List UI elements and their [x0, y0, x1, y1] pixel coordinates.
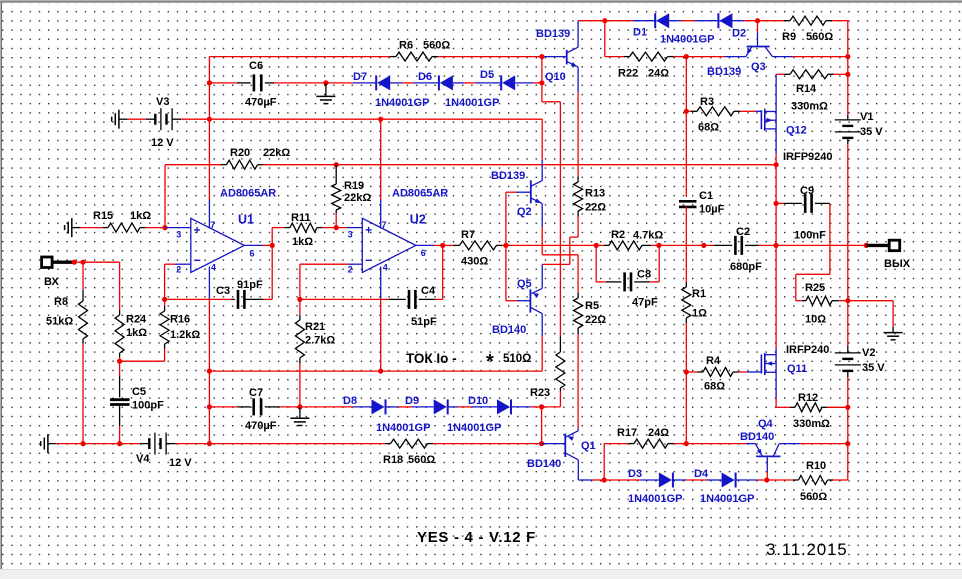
svg-text:D5: D5: [480, 69, 494, 81]
svg-text:680pF: 680pF: [730, 261, 762, 273]
label R5 value: [585, 314, 606, 326]
label R13 value: [585, 202, 606, 214]
wire C4 row: [300, 298, 406, 300]
label C5 value: [132, 400, 164, 412]
svg-text:560Ω: 560Ω: [806, 31, 833, 43]
pin label 7 of U2: [382, 220, 387, 230]
wire R24-R16 row: [120, 349, 165, 362]
label R21: [305, 321, 325, 333]
svg-text:D9: D9: [405, 395, 419, 407]
label Q10: [545, 71, 566, 83]
svg-text:1kΩ: 1kΩ: [292, 236, 313, 248]
wire mid rail to ground: [848, 301, 893, 327]
wire R15 to U1: [146, 227, 166, 229]
mosfet Q12: [761, 109, 776, 131]
node R17 right: [684, 441, 689, 446]
svg-text:D6: D6: [418, 71, 432, 83]
wire Q12 source to R14: [775, 74, 777, 111]
resistor R9: [784, 16, 832, 25]
node V3 rail: [207, 117, 212, 122]
resistor R13: [574, 177, 583, 217]
resistor R5: [574, 293, 583, 335]
label R6 value: [423, 40, 450, 52]
svg-text:R4: R4: [706, 355, 721, 367]
label 1N4001GP for D10: [447, 422, 501, 434]
pin label 3 of U2: [348, 230, 353, 240]
resistor R1: [682, 287, 691, 323]
svg-text:R13: R13: [585, 188, 605, 200]
wire V3 to rail: [172, 118, 209, 120]
label asterisk: [486, 351, 494, 373]
svg-text:R15: R15: [93, 210, 113, 222]
wire C3 leg down: [271, 245, 273, 299]
label C4 value: [411, 316, 437, 328]
label D2: [732, 28, 746, 40]
wire top D1 row: [578, 20, 633, 22]
label R4 value: [704, 381, 725, 393]
wire D3 row left: [604, 479, 659, 481]
capacitor C9: [805, 194, 811, 213]
label C8 value: [632, 297, 658, 309]
svg-text:C8: C8: [637, 269, 651, 281]
svg-text:R2: R2: [611, 229, 625, 241]
svg-text:R9: R9: [782, 31, 796, 43]
svg-text:C5: C5: [132, 386, 146, 398]
svg-text:1N4001GP: 1N4001GP: [700, 493, 754, 505]
transistor Q1: [565, 431, 578, 460]
wire Q10 emitter to R13: [577, 93, 579, 177]
node output rail mid: [774, 243, 779, 248]
label C6 value: [245, 97, 277, 109]
svg-text:3.11.2015: 3.11.2015: [766, 540, 848, 559]
svg-text:560Ω: 560Ω: [423, 40, 450, 52]
svg-text:C2: C2: [736, 226, 750, 238]
svg-text:D4: D4: [694, 468, 709, 480]
wire C3 right: [244, 298, 272, 300]
label R16 value: [170, 329, 200, 341]
label D4: [694, 468, 709, 480]
label R2: [611, 229, 625, 241]
label R7: [461, 229, 475, 241]
label R18: [383, 454, 403, 466]
resistor R8: [79, 262, 88, 443]
wire BX to R8: [74, 261, 83, 263]
label R10: [806, 460, 826, 472]
label C1 value: [699, 204, 725, 216]
battery V3: [155, 108, 172, 130]
label C7 value: [245, 420, 277, 432]
svg-text:Q5: Q5: [517, 278, 532, 290]
svg-text:47pF: 47pF: [632, 297, 658, 309]
wire node to R10: [767, 479, 799, 481]
label R7 value: [461, 256, 488, 268]
wire BX to R24 corner: [83, 262, 120, 310]
svg-text:R8: R8: [54, 296, 68, 308]
node Q1 collector: [602, 477, 607, 482]
label C3: [216, 285, 230, 297]
wire C2 right: [745, 244, 776, 246]
ground at diode chain: [316, 83, 335, 104]
capacitor C1: [679, 201, 697, 207]
svg-text:ВХ: ВХ: [44, 276, 60, 288]
svg-text:BD140: BD140: [527, 458, 561, 470]
svg-text:330mΩ: 330mΩ: [791, 101, 828, 113]
svg-text:BD139: BD139: [491, 170, 525, 182]
resistor R15: [108, 223, 146, 232]
label Q3: [751, 61, 766, 73]
svg-text:4.7kΩ: 4.7kΩ: [633, 230, 663, 242]
svg-text:Q4: Q4: [758, 418, 774, 430]
svg-text:1N4001GP: 1N4001GP: [375, 97, 429, 109]
wire U1 pin7 feed: [208, 119, 210, 228]
label C3 value: [237, 279, 263, 291]
transistor Q4: [755, 444, 780, 457]
wire D5 node riser: [541, 57, 543, 83]
svg-text:4: 4: [211, 263, 216, 273]
label D1: [633, 27, 647, 39]
label R11: [291, 212, 311, 224]
label Q5: [517, 278, 532, 290]
node Q1 base: [539, 441, 544, 446]
label R2 value: [633, 230, 663, 242]
wire Q1 collector down: [578, 460, 604, 480]
wire D3-D4: [686, 479, 707, 481]
wire U2 pin4 down: [380, 267, 382, 372]
svg-text:560Ω: 560Ω: [800, 491, 827, 503]
diode D3: [659, 473, 686, 488]
mosfet Q11: [761, 353, 776, 375]
label R3: [700, 96, 714, 108]
wire feedback row main: [263, 164, 776, 166]
node R24 bottom: [117, 359, 122, 364]
bottom scrollbar strip: [0, 569, 962, 579]
svg-text:C9: C9: [800, 185, 814, 197]
svg-text:YES - 4 - V.12 F: YES - 4 - V.12 F: [417, 529, 536, 546]
resistor R22: [605, 52, 674, 61]
node output port: [864, 243, 869, 248]
wire R11 left leg: [271, 228, 273, 246]
node BX: [72, 260, 77, 265]
wire R17node to Q4: [686, 443, 755, 445]
resistor R21: [295, 299, 304, 407]
svg-text:R11: R11: [291, 212, 311, 224]
label V1 value: [860, 126, 883, 138]
svg-text:Q1: Q1: [581, 440, 596, 452]
wire gnd to V4: [56, 443, 149, 445]
label 1N4001GP for D5: [445, 97, 499, 109]
diode D4: [707, 473, 757, 488]
svg-text:R12: R12: [798, 392, 818, 404]
label U1: [238, 213, 254, 227]
wire output rail: [775, 165, 777, 355]
wire weave W2: [542, 217, 578, 265]
transistor Q2: [531, 180, 542, 203]
capacitor C8: [625, 272, 631, 291]
svg-text:24Ω: 24Ω: [648, 427, 669, 439]
capacitor C6: [254, 74, 261, 91]
wire node to Q3 emitter: [686, 56, 746, 58]
label V4 value: [169, 457, 192, 469]
node R22-R3 junction: [684, 54, 689, 59]
wire feedback row left corner: [165, 165, 221, 228]
node C7 tap: [207, 404, 212, 409]
svg-text:24Ω: 24Ω: [648, 68, 669, 80]
wire V1 top: [847, 21, 849, 120]
resistor R12: [790, 403, 848, 412]
svg-text:BD139: BD139: [707, 66, 741, 78]
svg-text:68Ω: 68Ω: [704, 381, 725, 393]
svg-text:R19: R19: [344, 180, 364, 192]
wire C8 left jog: [596, 245, 621, 282]
node V4 rail left: [207, 441, 212, 446]
node D5-riser: [539, 80, 544, 85]
label 1N4001GP for D8 D9: [376, 422, 430, 434]
wire bias column W3: [559, 102, 561, 337]
wire gnd to R15: [80, 227, 108, 229]
label R1: [692, 288, 706, 300]
wire Q2 base leg: [506, 192, 531, 245]
svg-text:22kΩ: 22kΩ: [344, 192, 371, 204]
svg-text:V2: V2: [862, 347, 875, 359]
node U1 plus input: [162, 225, 167, 230]
node Q3 collector rail: [845, 54, 850, 59]
wire Q11 drain down: [776, 372, 790, 407]
svg-text:1.2kΩ: 1.2kΩ: [170, 329, 200, 341]
label V3: [156, 96, 169, 108]
svg-text:D8: D8: [343, 395, 357, 407]
label R8: [54, 296, 68, 308]
svg-text:22Ω: 22Ω: [585, 314, 606, 326]
label 1N4001GP for D3: [628, 493, 682, 505]
label R19 value: [344, 192, 371, 204]
svg-text:BD140: BD140: [740, 431, 774, 443]
svg-text:Q11: Q11: [787, 363, 807, 375]
capacitor C3: [238, 290, 244, 309]
resistor R14: [776, 70, 848, 79]
wire Q5 emitter leg: [541, 264, 543, 288]
wire Q5 base leg: [506, 245, 531, 300]
label R1 value: [692, 308, 707, 320]
label R12 value: [793, 418, 830, 430]
window top border: [0, 0, 962, 3]
op-amp U2: [362, 218, 416, 272]
pin label 4 of U1: [211, 263, 216, 273]
node U1 output: [270, 243, 275, 248]
pin label 2 of U2: [348, 265, 353, 275]
resistor R10: [799, 476, 834, 485]
wire R1 to R4 node: [685, 323, 687, 444]
svg-text:1N4001GP: 1N4001GP: [445, 97, 499, 109]
label R11 value: [292, 236, 313, 248]
label 1N4001GP for D1 D2: [660, 34, 714, 46]
wire R17 left leg: [603, 444, 605, 480]
svg-text:R5: R5: [585, 300, 599, 312]
wire C1 to R1: [685, 207, 687, 287]
wire top row to R6: [209, 56, 390, 58]
wire drive row: [506, 244, 596, 246]
wire Q10 base stub: [542, 56, 566, 58]
wire Q1 base stub: [542, 443, 566, 445]
wire R22node down to C1: [685, 57, 687, 197]
node Q4 collector rail: [845, 441, 850, 446]
svg-text:C3: C3: [216, 285, 230, 297]
label title YES-4-V.12F: [417, 529, 536, 546]
label C9: [800, 185, 814, 197]
label D3: [628, 468, 642, 480]
svg-text:6: 6: [421, 248, 426, 258]
svg-text:51pF: 51pF: [411, 316, 437, 328]
svg-text:1kΩ: 1kΩ: [130, 210, 151, 222]
capacitor C7: [254, 398, 261, 415]
label R20 value: [263, 147, 290, 159]
wire R23 bottom jog: [542, 391, 561, 407]
node R2 left: [594, 243, 599, 248]
wire D7-D6: [402, 82, 414, 84]
svg-text:12 V: 12 V: [151, 137, 174, 149]
wire +12V rail: [209, 118, 542, 120]
svg-text:22Ω: 22Ω: [585, 202, 606, 214]
label R10 value: [800, 491, 827, 503]
label R8 value: [46, 316, 73, 328]
svg-text:V4: V4: [136, 453, 150, 465]
label date: [766, 540, 848, 559]
resistor R4: [686, 368, 738, 377]
node U2 pin7 tap: [378, 117, 383, 122]
label BD140 Q1: [527, 458, 561, 470]
pin label 4 of U2: [383, 263, 388, 273]
label D6: [418, 71, 432, 83]
wire gnd to D8: [300, 406, 372, 408]
wire node to Q1 base: [541, 407, 543, 444]
node Vminus row tap: [207, 369, 212, 374]
battery V4: [149, 433, 166, 455]
port lead BYX: [866, 244, 889, 247]
label IRFP240: [786, 344, 829, 356]
node R12 right: [845, 405, 850, 410]
svg-text:1kΩ: 1kΩ: [126, 327, 147, 339]
wire V2 bottom: [847, 371, 849, 480]
node R8 bottom: [80, 441, 85, 446]
label R17: [617, 427, 637, 439]
label AD8065AR for U2: [392, 188, 448, 200]
label BD139 for Q10: [536, 28, 570, 40]
resistor R20: [221, 160, 263, 169]
pin label 3 of U1: [176, 230, 181, 240]
svg-text:R16: R16: [170, 314, 190, 326]
node R4 left: [684, 369, 689, 374]
label R13: [585, 188, 605, 200]
svg-text:1N4001GP: 1N4001GP: [628, 493, 682, 505]
svg-text:D2: D2: [732, 28, 746, 40]
svg-text:V3: V3: [156, 96, 169, 108]
label BYX: [884, 258, 911, 270]
resistor R17: [604, 439, 686, 448]
svg-text:D10: D10: [468, 395, 488, 407]
wire D10 to node: [531, 406, 542, 408]
diode D8: [372, 399, 399, 414]
resistor R3: [686, 107, 740, 116]
wire R9 to V1 rail: [832, 20, 848, 22]
wire U1 pin4 down: [208, 267, 210, 444]
svg-text:BD140: BD140: [492, 324, 526, 336]
wire D6-D5: [464, 82, 476, 84]
wire R25 to mid rail: [839, 300, 848, 302]
wire U1 pin3 stub: [165, 227, 191, 229]
svg-text:R25: R25: [805, 282, 825, 294]
svg-text:BD139: BD139: [536, 28, 570, 40]
node R8 top: [80, 260, 85, 265]
label R9: [782, 31, 796, 43]
svg-text:R23: R23: [530, 387, 550, 399]
wire weave W1: [542, 255, 578, 293]
wire U2 pin2 leg: [299, 264, 301, 299]
label C2 value: [730, 261, 762, 273]
label R9 value: [806, 31, 833, 43]
svg-text:35 V: 35 V: [862, 362, 885, 374]
wire Q5 collector leg: [541, 314, 543, 372]
wire D5 node jog down: [542, 83, 561, 102]
svg-text:*: *: [486, 351, 494, 373]
resistor R16: [160, 299, 169, 348]
diode D7: [376, 75, 402, 90]
resistor R2: [596, 241, 651, 250]
svg-text:6: 6: [250, 248, 255, 258]
diode D9: [412, 399, 458, 414]
svg-text:430Ω: 430Ω: [461, 256, 488, 268]
node C9 tap: [774, 201, 779, 206]
ground at V4: [41, 434, 57, 453]
wire supply column upper: [208, 57, 210, 120]
label R22 value: [648, 68, 669, 80]
wire R24 node to C5: [119, 361, 121, 397]
label R25: [805, 282, 825, 294]
transistor Q10: [567, 47, 578, 67]
capacitor C4: [409, 290, 415, 309]
label C4: [421, 285, 436, 297]
wire U2 pin2 stub: [300, 263, 362, 265]
svg-text:Q10: Q10: [545, 71, 566, 83]
svg-text:3: 3: [176, 230, 181, 240]
svg-text:C7: C7: [249, 387, 263, 399]
label C8: [637, 269, 651, 281]
wire R3 to Q12 gate: [740, 110, 761, 112]
label R16: [170, 314, 190, 326]
wire D2 to R9: [744, 20, 784, 22]
label C9 value: [794, 230, 826, 242]
svg-text:R17: R17: [617, 427, 637, 439]
wire R10 to rail: [833, 479, 848, 481]
svg-text:R3: R3: [700, 96, 714, 108]
label BX: [44, 276, 60, 288]
resistor R19: [332, 165, 341, 228]
label BD139 for Q2: [491, 170, 525, 182]
label C2: [736, 226, 750, 238]
diode D10: [472, 399, 531, 414]
resistor R25: [802, 296, 839, 305]
label D10: [468, 395, 488, 407]
wire C7 left: [209, 406, 250, 408]
svg-text:470µF: 470µF: [245, 420, 277, 432]
label Q11: [787, 363, 807, 375]
wire Q4 base leg: [766, 456, 768, 480]
svg-text:91pF: 91pF: [237, 279, 263, 291]
wire C6 left: [209, 82, 250, 84]
label R14: [796, 83, 817, 95]
pin label 6 of U1: [250, 248, 255, 258]
wire U2 pin3 stub: [336, 227, 362, 229]
svg-text:100nF: 100nF: [794, 230, 826, 242]
node C7 ground: [297, 404, 302, 409]
